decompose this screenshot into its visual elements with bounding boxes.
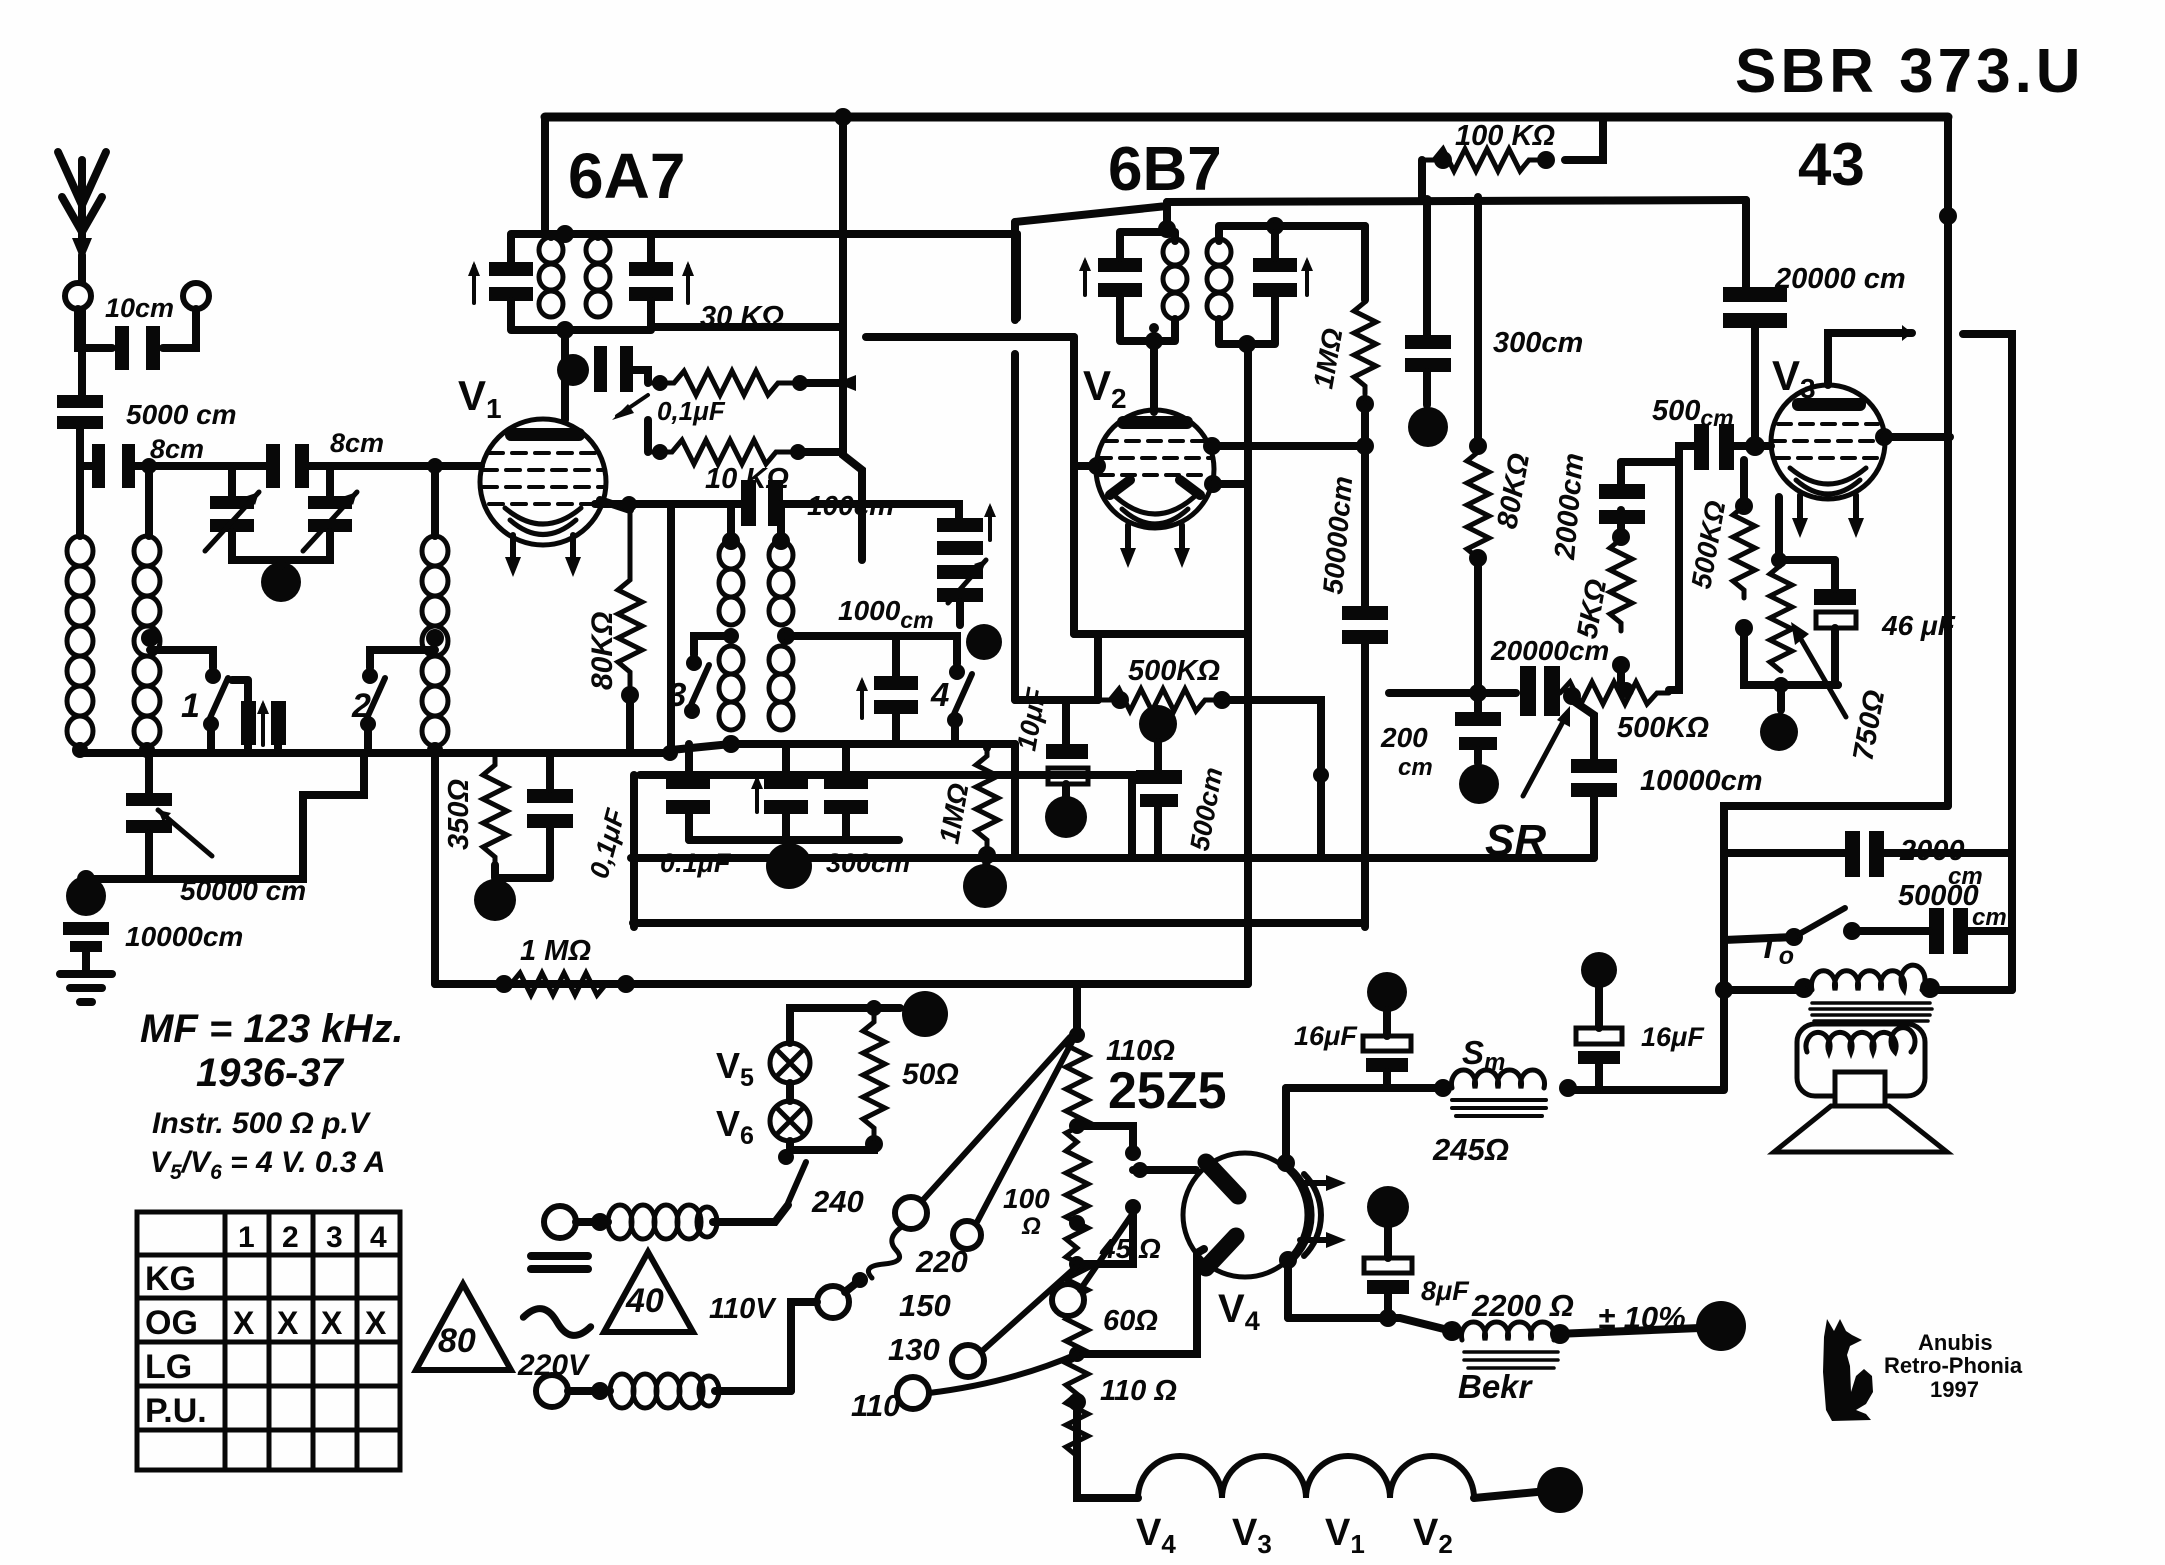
svg-text:300cm: 300cm (1493, 327, 1583, 359)
wire varco right top (326, 466, 334, 496)
choke mains bottom (610, 1374, 719, 1408)
tube V3 envelope (1771, 385, 1885, 499)
wire 300cm b joint (842, 744, 850, 752)
wire mains bottom lead (568, 1387, 610, 1395)
node 500K grid top (1735, 497, 1753, 515)
capacitor 0,1uF cathode (527, 789, 573, 828)
node tap4 (1069, 1346, 1085, 1362)
node coil B top (772, 532, 790, 550)
wire 500K right branch (1222, 700, 1321, 858)
svg-text:100 KΩ: 100 KΩ (1455, 120, 1555, 152)
electrolytic 10uF (1046, 744, 1088, 784)
wire 100ohm diagonal to apex (976, 1040, 1073, 1224)
T2 left loop wires (1120, 232, 1175, 341)
node coil B tap (777, 627, 795, 645)
V4 anode bar upper (1206, 1162, 1238, 1196)
switch 2 (360, 668, 385, 753)
node screen rail V2 (1422, 195, 1432, 205)
node wire775 junction (1313, 767, 1329, 783)
arrow SR to wiper (1523, 706, 1570, 796)
resistor 10K (648, 440, 798, 464)
node anode1 wire (1132, 1162, 1148, 1178)
svg-text:5000 cm: 5000 cm (126, 399, 237, 430)
wire 2000cm tone leads (1724, 849, 2012, 857)
svg-text:Bekr: Bekr (1458, 1368, 1534, 1405)
wire antenna down (78, 255, 86, 395)
ballast resistor 110ohm chain (1066, 1032, 1088, 1461)
wire 300cm bottom (1423, 372, 1431, 405)
svg-text:X: X (277, 1305, 299, 1341)
terminal 110V tap (817, 1286, 849, 1318)
node 10K left (652, 444, 668, 460)
tube V4 envelope (1183, 1153, 1307, 1277)
svg-text:Anubis: Anubis (1918, 1330, 1993, 1355)
wire choke bottom to 110V (715, 1387, 791, 1395)
trimmer capacitor osc bottom (937, 560, 986, 603)
wire grid cap to 10K (633, 370, 648, 383)
svg-text:300cm: 300cm (826, 848, 910, 878)
V1 heater arrows (505, 535, 581, 577)
blob output terminal (1696, 1301, 1746, 1351)
node ground chain top (77, 870, 95, 888)
terminal mains bottom (536, 1375, 568, 1407)
wire 10K right to vertical (798, 448, 843, 456)
wire V4 bottom right down (1284, 1260, 1292, 1318)
svg-text:2200 Ω: 2200 Ω (1471, 1288, 1574, 1323)
wire cathode row 775 (640, 775, 1132, 858)
node tap1 (1069, 1118, 1085, 1134)
node grid row junction (1356, 437, 1374, 455)
node T1 bottom (556, 321, 574, 339)
arrow up between padders (257, 700, 269, 745)
capacitor 200cm (1455, 712, 1501, 750)
T2 left coil (1163, 239, 1187, 319)
node coil3 top (427, 458, 443, 474)
node coil A tap (723, 628, 739, 644)
wire 10000cm leads (1572, 700, 1594, 858)
blob ground chain (66, 876, 106, 916)
svg-text:6A7: 6A7 (568, 140, 685, 212)
terminal circle right of 10cm (183, 283, 209, 309)
wire 5000cm to junction (76, 429, 84, 536)
wire switch left (1724, 937, 1794, 940)
svg-text:350Ω: 350Ω (443, 779, 475, 850)
wire tap3 stub (1077, 1212, 1133, 1264)
wire osc bottom row (731, 740, 962, 748)
tube V1 envelope (480, 419, 606, 545)
node T1 top (556, 225, 574, 243)
terminal 110 (897, 1377, 929, 1409)
V2 cathode arc (1116, 497, 1194, 514)
choke mains top (608, 1205, 717, 1239)
node pot wiper (1563, 687, 1581, 705)
svg-text:1: 1 (238, 1221, 255, 1254)
wire 10uF top row (1015, 696, 1098, 704)
svg-text:220V: 220V (517, 1349, 591, 1382)
blob lamp terminal (902, 991, 948, 1037)
resistor 1M AVC horizontal (501, 973, 626, 995)
variable capacitor 50000cm (126, 793, 212, 856)
node bus753 right end (662, 745, 678, 761)
node 80K top (1469, 437, 1487, 455)
node V4 bottom right pin (1279, 1251, 1297, 1269)
wire cap cathode top (546, 753, 554, 789)
wire top bus right corner down (1944, 117, 1952, 806)
vertical 435 from switch area (431, 753, 439, 984)
svg-text:V5/V6 = 4 V. 0.3 A: V5/V6 = 4 V. 0.3 A (150, 1146, 385, 1184)
svg-text:130: 130 (888, 1332, 940, 1367)
node T2 feed (1158, 220, 1176, 238)
V2 heater arrows (1120, 525, 1190, 568)
capacitor 10000cm (63, 922, 109, 952)
wave band table (137, 1212, 400, 1470)
wire box bottom drop to 500K (1094, 634, 1102, 700)
svg-text:110V: 110V (709, 1293, 777, 1325)
wire coilB top stub (777, 504, 785, 541)
node T2 left bottom (1145, 332, 1163, 350)
svg-text:60Ω: 60Ω (1103, 1305, 1158, 1337)
T2 right loop wires (1219, 226, 1275, 344)
wire 50000cm drop (145, 753, 153, 793)
wire coilA top stub (727, 504, 735, 541)
wire coil2 stem top (145, 466, 153, 536)
svg-text:500KΩ: 500KΩ (1128, 655, 1220, 687)
wire padder left top (232, 680, 248, 701)
wire V4 anode1 feed (1133, 1166, 1196, 1174)
arrow variable 750 (1795, 629, 1846, 717)
choke Bekr coil (1461, 1322, 1554, 1340)
svg-text:KG: KG (145, 1260, 196, 1298)
blob heater terminal (1537, 1467, 1583, 1513)
node coil A top (722, 532, 740, 550)
node 1M avc right (617, 975, 635, 993)
arrow up beside T2 left cap (1079, 257, 1091, 295)
node 8uF bottom (1379, 1309, 1397, 1327)
svg-text:1: 1 (181, 687, 200, 725)
svg-text:245Ω: 245Ω (1432, 1132, 1509, 1167)
wire V3 anode to top (1828, 333, 1912, 385)
arrow up left of 300cm (751, 775, 763, 812)
vertical box left edge (630, 775, 638, 927)
wire bracket mid horizontal (866, 333, 1074, 341)
wire mains top lead (576, 1218, 608, 1226)
svg-text:Instr. 500 Ω p.V: Instr. 500 Ω p.V (152, 1107, 372, 1140)
capacitor 300cm a (764, 775, 808, 814)
node 5K top (1612, 528, 1630, 546)
capacitor 500cm grid43 (1694, 424, 1734, 470)
wire 30K right to vertical (800, 379, 843, 387)
V3 cathode arc (1790, 468, 1866, 484)
switch tone (1785, 908, 1861, 946)
coil osc A (719, 541, 743, 730)
node 80K bottom (1469, 549, 1487, 567)
resistor 80K cathode (618, 510, 642, 690)
arrow up beside 1000cm (856, 677, 868, 718)
blob 500cm top (1139, 705, 1177, 743)
blob node under varcos (261, 562, 301, 602)
node 500K right (1213, 691, 1231, 709)
svg-text:2: 2 (351, 687, 371, 725)
wire 110V circle left (791, 1302, 817, 1391)
capacitor 50000cm series (1342, 606, 1388, 644)
wire squiggle to 110V circle (845, 1280, 860, 1292)
antenna symbol (58, 152, 106, 262)
capacitor 20000cm AF coupling (1520, 666, 1560, 716)
wire ballast bottom to heaters (1077, 1402, 1138, 1498)
wire 8cm-left to junction (80, 462, 92, 470)
svg-text:3: 3 (668, 676, 686, 713)
capacitor 8cm left (92, 444, 135, 488)
wire screen rail drop right (1742, 200, 1750, 287)
wire 100cm right to trimmer (783, 504, 959, 518)
wire 2000cm top stub (1617, 462, 1625, 484)
capacitor 100cm (741, 480, 783, 526)
wire 750 bottom drop (1777, 685, 1785, 710)
wires 300cm leads (786, 744, 846, 840)
svg-text:0.1μF: 0.1μF (660, 848, 732, 878)
resistor 350 Ohm (483, 757, 507, 865)
V4 arrows out right (1300, 1175, 1346, 1248)
wire V3 screen to right vertical (1884, 433, 1950, 441)
svg-text:43: 43 (1798, 131, 1865, 198)
node coil A bottom (722, 735, 740, 753)
wire V2 grid left to box (1074, 462, 1097, 470)
wire 6B7 feed from bus (1015, 202, 1167, 228)
switch mains (778, 1149, 806, 1203)
arrow into V1 grid (612, 395, 648, 420)
vertical osc left branch (667, 504, 675, 753)
node 1M right bottom (1356, 395, 1374, 413)
node 1M avc left (495, 975, 513, 993)
wire V2 grid right row (1212, 442, 1365, 450)
node T2 right bottom (1238, 335, 1256, 353)
wire circle2 stem (163, 309, 196, 348)
electrolytic 16uF left (1363, 972, 1411, 1088)
svg-text:3: 3 (326, 1221, 343, 1254)
wire 50000cm bottom (1361, 644, 1369, 927)
wire V4 cathode up (1282, 1088, 1290, 1163)
svg-text:1 MΩ: 1 MΩ (520, 935, 591, 967)
wire 240 diagonal to apex (922, 1037, 1070, 1201)
V4 cathode double arc (1290, 1168, 1312, 1262)
padding capacitor left (241, 701, 256, 745)
capacitor 2000cm tone top (1845, 831, 1884, 877)
node choke top left (591, 1213, 609, 1231)
V3 heater arrows (1792, 495, 1864, 538)
svg-text:OG: OG (145, 1304, 198, 1342)
wire y200 rail (1167, 200, 1746, 202)
IF transformer T1 secondary cap (629, 262, 673, 301)
main bus 753 (80, 749, 670, 757)
svg-text:Ω: Ω (1021, 1213, 1041, 1240)
node L2 mid tap (141, 629, 159, 647)
node V2 grid right (1203, 437, 1221, 455)
wire 500K grid bottom (1744, 628, 1838, 685)
node 50ohm bottom (865, 1135, 883, 1153)
svg-text:150: 150 (899, 1288, 951, 1323)
lamp V5 (770, 1043, 810, 1083)
wire 80K bottom to junction (1474, 558, 1482, 693)
wire row to V1 grid (309, 462, 481, 470)
triangle 40 (604, 1252, 693, 1332)
arrow up beside T2 right cap (1301, 257, 1313, 295)
node V2 grid left (1088, 457, 1106, 475)
svg-text:8cm: 8cm (150, 434, 204, 464)
electrolytic 8uF (1364, 1186, 1412, 1318)
arrow V3 plate feed (1902, 325, 1912, 341)
IF transformer T1 primary coil (539, 237, 563, 317)
electrolytic 16uF right (1576, 952, 1622, 1088)
V4 anode bar lower (1206, 1236, 1236, 1268)
wire antenna row (135, 462, 266, 470)
To secondary box (1797, 1024, 1925, 1096)
node choke bottom left (591, 1382, 609, 1400)
wire 1948 corner to To (1568, 806, 1948, 1090)
svg-text:1936-37: 1936-37 (196, 1051, 345, 1095)
svg-text:10000cm: 10000cm (1640, 765, 1763, 797)
node bus L3 (427, 742, 443, 758)
arrow up beside T1 primary cap (468, 261, 480, 303)
blob 1M bottom (963, 864, 1007, 908)
wire junction to 20000cm cap (1478, 689, 1516, 697)
terminal 240 (895, 1197, 927, 1229)
capacitor 8cm second (266, 444, 309, 488)
wire 50000cm tone leads (1852, 927, 2012, 935)
svg-text:SR: SR (1485, 816, 1546, 865)
wire T2 right top rail (1275, 222, 1365, 230)
sine symbol (522, 1306, 592, 1337)
IF transformer T2 left cap (1098, 258, 1142, 297)
V1 anode bar (505, 428, 585, 441)
node 100K right (1537, 151, 1555, 169)
To transformer primary coil (1812, 965, 1926, 990)
node feed top (834, 108, 852, 126)
svg-text:30 KΩ: 30 KΩ (700, 301, 784, 333)
terminal mains top (544, 1206, 576, 1238)
grid cap blob (557, 354, 589, 386)
node V2 diode right (1204, 475, 1222, 493)
resistor 1M right vertical (1354, 300, 1376, 394)
node V3 screen right (1875, 428, 1893, 446)
wire 200cm leads (1474, 693, 1482, 763)
wire 50000cm bottom row (86, 753, 364, 879)
svg-text:1997: 1997 (1930, 1377, 1979, 1402)
wire coil3 stem top (431, 466, 439, 536)
node 50ohm top (866, 1000, 882, 1016)
V1 cathode arc (505, 508, 581, 524)
lamp V6 (770, 1101, 810, 1141)
wire 0.1uF leads (685, 744, 693, 840)
blob osc return (766, 843, 812, 889)
wire tap1 to stub (1077, 1126, 1133, 1148)
To core lines (1810, 1003, 1932, 1021)
wire V2 diode right to box (1213, 480, 1248, 488)
node coil2 top (141, 458, 157, 474)
terminal circle left of 10cm (65, 283, 91, 309)
V2 anode bar (1117, 416, 1193, 429)
wire coilA bottom rail (671, 744, 731, 750)
wire 1M bottom stub (986, 855, 987, 868)
svg-text:SBR 373.U: SBR 373.U (1735, 37, 2085, 106)
blob cathode return (474, 879, 516, 921)
wire 110 curve to ballast (929, 1354, 1077, 1393)
vertical hop line to AVC (1011, 222, 1019, 700)
wire T1 top right to 30K bracket (651, 230, 1017, 238)
T2 right coil (1207, 239, 1231, 319)
svg-text:20000 cm: 20000 cm (1774, 263, 1906, 295)
resistor 500K grid43 (1733, 506, 1755, 598)
capacitor 0.1uF osc (666, 775, 710, 814)
wire 80K top from screen rail (1474, 197, 1482, 441)
wire cathode bottom join (495, 828, 550, 878)
wire To primary right (1930, 986, 2012, 994)
wire coilB tap row to switch4 (786, 636, 957, 664)
vertical V2 box left top (1070, 337, 1078, 634)
variable capacitor trimmer left (205, 492, 259, 551)
ground (60, 952, 112, 1002)
wire V5 top rail (790, 1008, 900, 1043)
node 750 bottom (1773, 677, 1789, 693)
wire 20000cm bottom to grid node (1751, 328, 1759, 446)
node L3 mid tap (426, 629, 444, 647)
wire squiggle 240 to 110V (868, 1226, 903, 1278)
wire 46uF top (1831, 560, 1839, 589)
switch 3 (684, 655, 709, 719)
node Sm right (1559, 1079, 1577, 1097)
node V4 top right pin (1277, 1154, 1295, 1172)
wire 300cm top (1423, 200, 1431, 335)
wire Bekr row (1288, 1318, 1452, 1331)
node To primary right (1920, 978, 1940, 998)
wire 500cm left lead (1679, 446, 1694, 462)
coil osc B (769, 541, 793, 730)
V2 diode plates (1110, 480, 1200, 495)
V2 box bottom (1074, 630, 1248, 638)
wire apex to bus984 (1073, 984, 1081, 1032)
top HT bus (545, 113, 1948, 122)
svg-text:240: 240 (811, 1184, 864, 1219)
wire 10K left up (644, 420, 652, 452)
vertical grid-stopper drop (1011, 744, 1019, 858)
blob trimmer (966, 624, 1002, 660)
wire tap4 to V4 anode2 (1077, 1249, 1204, 1354)
wire 130 diagonal (981, 1266, 1077, 1352)
T1 bottom rail (511, 301, 651, 330)
wire V1 cathode to 80K top (600, 500, 630, 510)
wire 100cm left lead (731, 500, 741, 508)
tube V2 envelope (1096, 410, 1214, 528)
node tap2 (1069, 1215, 1085, 1231)
blob cathode return 43 (1760, 713, 1798, 751)
svg-text:220: 220 (915, 1244, 968, 1279)
T1 top rail (511, 234, 651, 262)
bus mid 858 (631, 854, 1594, 862)
wire V1 bottom to oscillator (595, 500, 731, 508)
svg-text:110: 110 (851, 1388, 900, 1423)
svg-text:Retro-Phonia: Retro-Phonia (1884, 1353, 2023, 1378)
svg-text:10cm: 10cm (105, 293, 174, 323)
wire V1 anode stem (561, 330, 569, 420)
svg-text:110 Ω: 110 Ω (1100, 1375, 1177, 1407)
wire 10uF leads (1062, 700, 1070, 797)
V2 box right vertical (1244, 344, 1252, 634)
wire trimmer bottom (956, 602, 964, 625)
resistor 750 cathode (1770, 565, 1792, 671)
wire 150 diagonal (1080, 1213, 1133, 1290)
svg-text:100: 100 (1003, 1183, 1050, 1214)
wire cathode row (1779, 497, 1835, 565)
wire V6 bottom rail (790, 1141, 874, 1150)
